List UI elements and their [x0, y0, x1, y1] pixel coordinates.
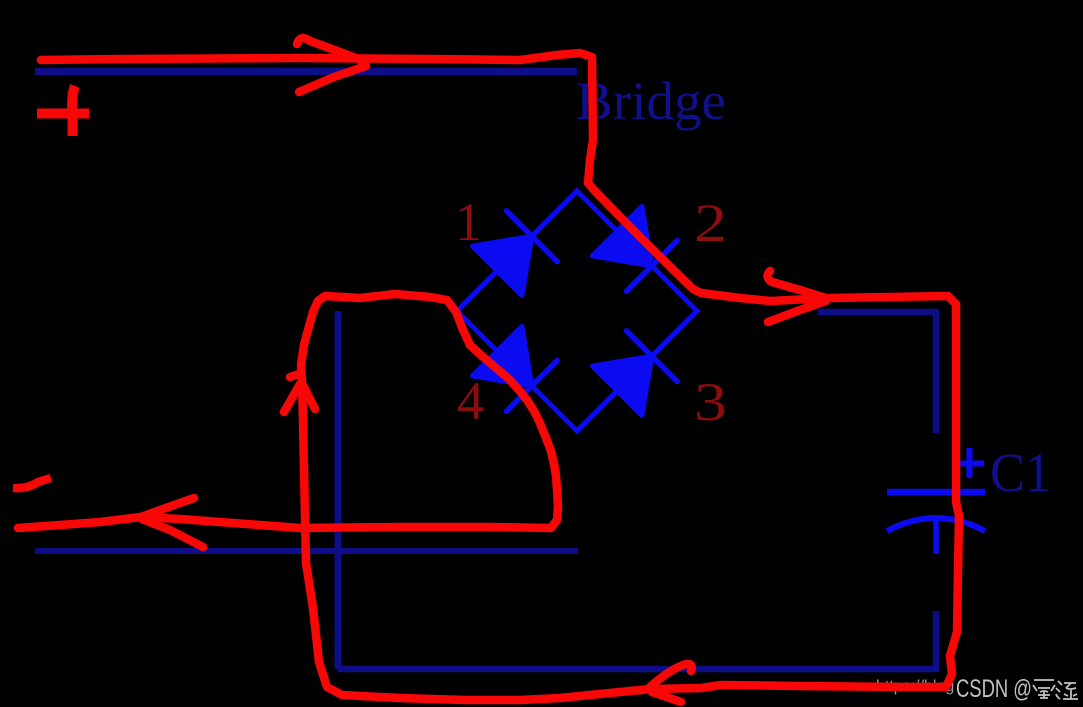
- wire: bridge output to C1 (top right): [818, 312, 936, 433]
- diode 2 cathode bar: [626, 240, 677, 291]
- diode 1 triangle: [473, 236, 532, 295]
- capacitor C1 plate stub: [933, 518, 939, 554]
- red annotation: arrowhead left on bottom return: [650, 664, 692, 702]
- red annotation: plus sign (AC + terminal): [37, 86, 89, 136]
- wire: top AC input line: [35, 68, 577, 76]
- watermark CJK glyph 1: [1033, 680, 1055, 698]
- svg-text:1: 1: [455, 192, 482, 252]
- capacitor C1 curved plate: [887, 518, 985, 531]
- red annotation: minus sign (AC - terminal): [13, 478, 51, 488]
- wire: C1 bottom lead: [933, 611, 940, 669]
- svg-text:3: 3: [694, 372, 727, 432]
- red annotation: arrowhead to C1 (pointing right): [767, 271, 826, 322]
- diode 2 triangle: [593, 207, 652, 266]
- red annotation: arrowhead left on middle return: [141, 498, 203, 547]
- svg-text:2: 2: [694, 193, 727, 253]
- diode 4 triangle: [473, 327, 532, 386]
- capacitor C1 top plate: [887, 489, 985, 496]
- diode 1 cathode bar: [506, 211, 557, 262]
- svg-text:4: 4: [457, 371, 484, 431]
- red annotation: arrowhead up on left loop: [284, 374, 315, 412]
- diode 4 cathode bar: [506, 360, 557, 411]
- svg-text:Bridge: Bridge: [576, 71, 726, 131]
- wire: bottom AC input line: [35, 548, 578, 554]
- bridge rectifier diamond outline: [457, 191, 697, 431]
- red annotation: arrowhead on top line (pointing right): [297, 38, 366, 92]
- watermark CJK glyph 2: [1056, 681, 1078, 699]
- wire: load loop left vertical: [335, 311, 342, 669]
- svg-text:C1: C1: [990, 442, 1051, 503]
- capacitor C1 polarity plus: [956, 448, 984, 478]
- svg-text:CSDN @: CSDN @: [956, 675, 1032, 703]
- diode 3 cathode bar: [626, 331, 677, 382]
- diode 3 triangle: [593, 356, 652, 415]
- wire: load loop bottom: [338, 666, 939, 673]
- red annotation: main current scribble loop: [18, 53, 959, 700]
